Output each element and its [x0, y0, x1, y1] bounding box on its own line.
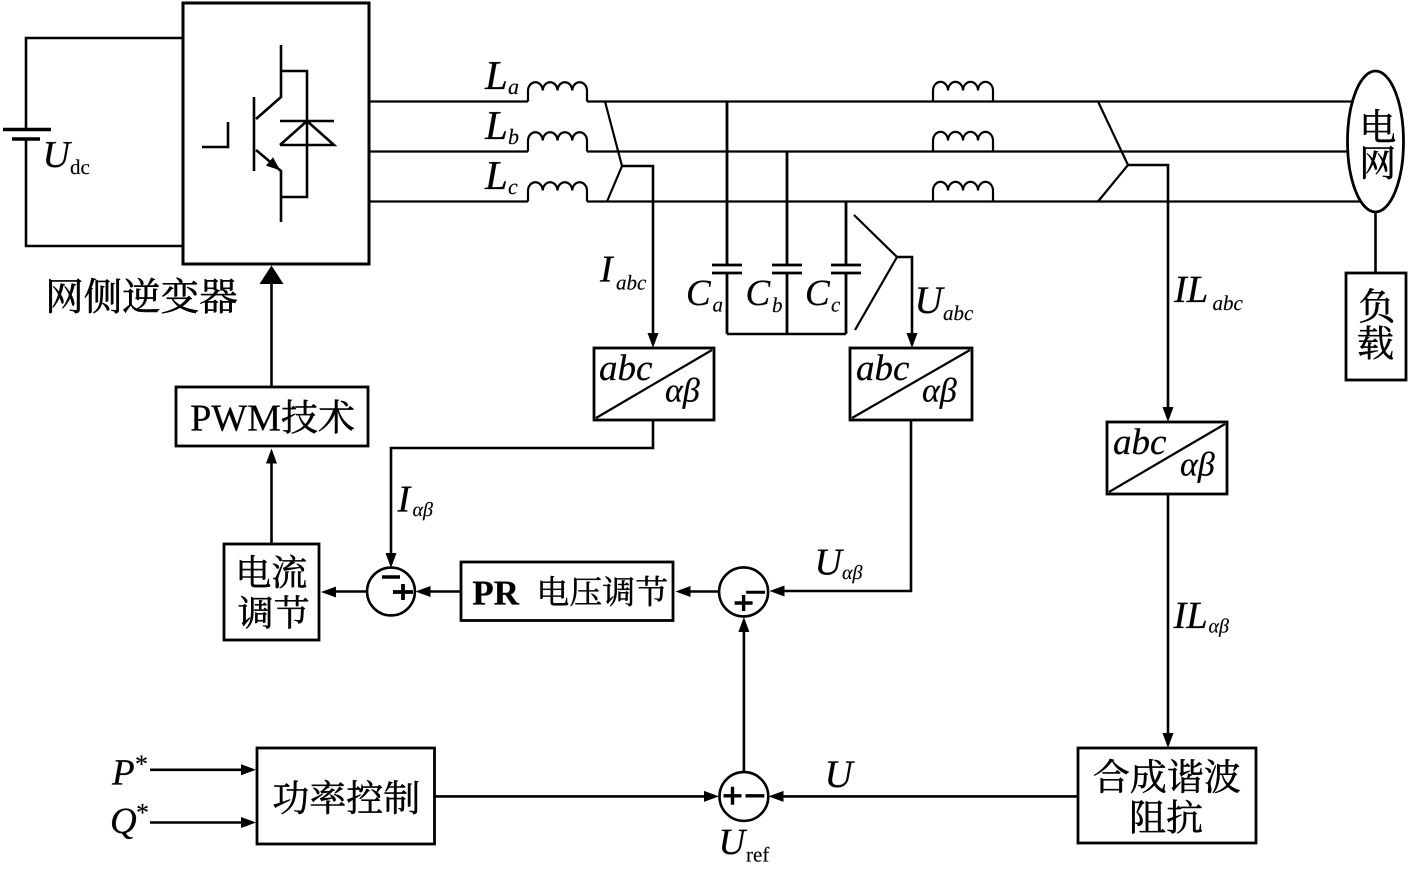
wire Iabc	[622, 166, 659, 348]
wire DC negative	[26, 139, 184, 246]
label ILabc	[1174, 277, 1243, 310]
label Ialphabeta	[397, 487, 433, 521]
wire U (impedance to S3)	[769, 791, 1079, 802]
wire grid to load	[1374, 212, 1377, 273]
wire S2 to PR	[676, 586, 720, 597]
summing junction S2	[719, 567, 768, 616]
wire PR to S1	[416, 586, 462, 597]
label Uref	[722, 830, 769, 862]
wire PWM to inverter gate	[260, 266, 284, 388]
summing junction S1	[367, 568, 415, 616]
load box 负载	[1346, 273, 1406, 380]
wire S3 to S2	[738, 617, 749, 772]
wire current regulator to PWM	[266, 449, 277, 545]
label Cb	[748, 281, 782, 313]
current sensor ILabc (3-phase tap)	[1098, 102, 1128, 202]
current sensor Iabc (3-phase tap)	[605, 102, 622, 202]
wire Uabc	[897, 257, 918, 348]
label Uabc	[918, 287, 973, 320]
label Lc	[485, 162, 518, 194]
wire capacitor neutral bus	[727, 333, 846, 336]
inductor grid Lb2	[933, 132, 993, 152]
wire ILabc	[1128, 165, 1174, 422]
voltage sensor Uabc (3-phase tap)	[854, 215, 897, 330]
transistor IGBT	[202, 45, 284, 222]
inductor Lb	[528, 132, 587, 151]
label Ualphabeta	[818, 550, 862, 584]
diode (anti-parallel)	[280, 71, 334, 197]
grid source 电网	[1348, 71, 1404, 212]
label P*	[112, 755, 147, 784]
block 电流调节 (current regulator)	[224, 544, 319, 640]
battery Udc	[3, 130, 51, 140]
label Iabc	[600, 257, 646, 290]
wire DC positive	[26, 38, 184, 130]
wire phase b	[369, 150, 1348, 152]
capacitor Cc	[831, 202, 861, 335]
label Cc	[807, 281, 840, 312]
block abc-to-alphabeta U3 (load current)	[1107, 422, 1227, 494]
block PWM技术	[176, 387, 368, 446]
wire phase c	[369, 200, 1360, 202]
wire Ialphabeta	[386, 420, 654, 568]
label U	[828, 761, 855, 787]
label La	[485, 62, 519, 94]
block abc-to-alphabeta U1 (current)	[594, 348, 714, 420]
block PR电压调节 (PR voltage regulator)	[461, 562, 673, 621]
wire ILalphabeta	[1163, 494, 1174, 748]
wire phase a	[369, 100, 1352, 102]
label Ca	[688, 281, 722, 312]
capacitor Ca	[712, 102, 742, 335]
label Q*	[112, 804, 148, 839]
wire S1 to current regulator	[321, 587, 367, 598]
wire P* input	[150, 764, 256, 775]
capacitor Cb	[772, 152, 802, 335]
summing junction S3	[720, 772, 769, 821]
inductor La	[528, 82, 587, 101]
inductor Lc	[528, 182, 587, 201]
wire Ualphabeta	[770, 420, 912, 597]
inductor grid Lc2	[933, 182, 993, 202]
block abc-to-alphabeta U2 (voltage)	[850, 348, 972, 420]
block 合成谐波阻抗 (synthesized harmonic impedance)	[1078, 748, 1256, 843]
wire power control to S3	[435, 791, 720, 802]
block 功率控制 (power control)	[257, 748, 435, 844]
inverter box (grid-side inverter)	[183, 3, 369, 264]
label Lb	[485, 112, 519, 144]
inductor grid La2	[933, 82, 993, 102]
label ILalphabeta	[1173, 603, 1229, 637]
label Udc	[46, 142, 89, 174]
wire Q* input	[150, 817, 256, 828]
label 网侧逆变器	[49, 278, 236, 314]
